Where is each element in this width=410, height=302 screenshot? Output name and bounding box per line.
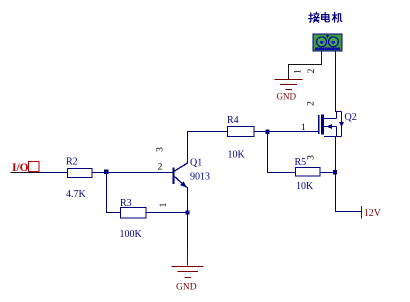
svg-text:1: 1 bbox=[294, 69, 304, 74]
svg-text:10K: 10K bbox=[296, 181, 314, 192]
svg-text:GND: GND bbox=[176, 283, 197, 293]
svg-text:2: 2 bbox=[307, 101, 317, 106]
svg-text:10K: 10K bbox=[228, 150, 246, 161]
svg-text:GND: GND bbox=[277, 92, 297, 102]
svg-text:1: 1 bbox=[159, 202, 169, 207]
svg-text:9013: 9013 bbox=[190, 172, 210, 183]
svg-text:2: 2 bbox=[158, 163, 163, 173]
svg-text:R3: R3 bbox=[120, 198, 132, 209]
svg-text:Q1: Q1 bbox=[190, 158, 202, 169]
svg-text:100K: 100K bbox=[120, 229, 143, 240]
svg-text:3: 3 bbox=[307, 155, 317, 160]
svg-text:12V: 12V bbox=[364, 208, 382, 219]
svg-text:R2: R2 bbox=[66, 157, 78, 168]
svg-text:1: 1 bbox=[301, 123, 306, 133]
svg-text:R5: R5 bbox=[295, 157, 307, 168]
svg-text:R4: R4 bbox=[227, 115, 239, 126]
svg-text:Q2: Q2 bbox=[345, 112, 357, 123]
svg-text:4.7K: 4.7K bbox=[66, 189, 87, 200]
svg-text:I/O: I/O bbox=[12, 162, 29, 174]
svg-text:2: 2 bbox=[307, 68, 317, 73]
svg-text:3: 3 bbox=[156, 147, 166, 152]
